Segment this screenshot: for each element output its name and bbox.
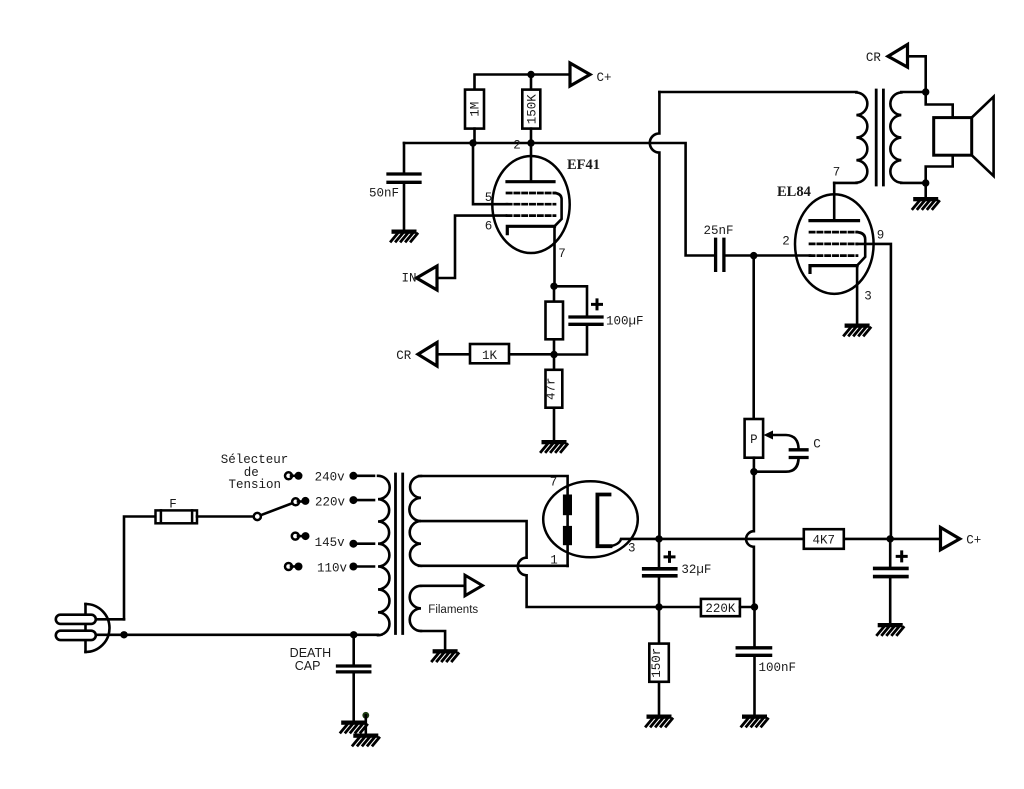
transformer PT primary winding xyxy=(378,476,390,635)
node top rail junction xyxy=(527,71,534,78)
EF41 g3 bracket to cathode, pin 7 drop xyxy=(555,193,562,286)
node B+ 32uF xyxy=(655,535,662,542)
node death cap tap xyxy=(350,631,357,638)
svg-text:220v: 220v xyxy=(315,496,346,510)
svg-text:Filaments: Filaments xyxy=(428,604,478,616)
svg-text:C+: C+ xyxy=(966,534,981,548)
connector Filaments xyxy=(465,575,482,596)
node 220K right xyxy=(751,603,758,610)
svg-text:150r: 150r xyxy=(650,648,664,678)
resistor 4K7 xyxy=(804,529,844,549)
svg-text:Tension: Tension xyxy=(229,478,282,492)
ground EL84 cathode xyxy=(844,324,870,336)
resistor 47r xyxy=(553,355,556,442)
svg-text:CR: CR xyxy=(866,51,882,65)
EF41 cathode xyxy=(507,226,554,233)
selector 145v tap xyxy=(292,533,299,540)
transformer PT filament winding xyxy=(410,586,421,631)
wire plug neutral rail xyxy=(96,633,378,636)
node EL84 grid xyxy=(750,252,757,259)
capacitor (C+ filter) xyxy=(889,539,892,623)
capacitor C (tone) with wiper arrow xyxy=(764,431,774,440)
svg-text:EL84: EL84 xyxy=(777,184,811,200)
capacitor 32uF xyxy=(658,539,661,607)
capacitor 25nF xyxy=(724,254,810,257)
selector 110v tap xyxy=(285,563,292,570)
transformer PT HT secondary xyxy=(409,476,421,566)
svg-text:100nF: 100nF xyxy=(759,661,797,675)
svg-text:4K7: 4K7 xyxy=(813,534,836,548)
node OPT secondary top xyxy=(922,88,929,95)
ground C+ filter xyxy=(877,623,903,635)
svg-text:1M: 1M xyxy=(469,102,483,117)
rectifier cathode bracket xyxy=(597,495,610,547)
connector CR (top) xyxy=(908,56,926,92)
node P bottom xyxy=(750,468,757,475)
svg-text:2: 2 xyxy=(513,139,521,153)
wire pin 9 (screen) down to B+ node xyxy=(857,244,891,539)
wire pin 3 to ground xyxy=(856,266,859,324)
capacitor 50nF xyxy=(403,143,406,231)
resistor (cathode, unlabeled) xyxy=(553,286,556,354)
node 1M/50nF junction xyxy=(469,139,476,146)
connector C+ (top) xyxy=(570,63,590,86)
capacitor 100nF xyxy=(753,607,756,714)
wire pin 5 (from 1M) xyxy=(473,143,507,204)
ground death cap 1 xyxy=(341,721,367,733)
wire pin 6 (from IN) xyxy=(437,216,506,278)
node cathode bottom junction xyxy=(550,351,557,358)
EL84 grids (dashed) xyxy=(810,232,857,256)
capacitor 100uF xyxy=(554,286,587,354)
node plug neutral xyxy=(120,631,127,638)
EL84 anode plate xyxy=(810,219,859,222)
svg-text:5: 5 xyxy=(485,191,493,205)
mains plug xyxy=(84,604,87,652)
connector IN xyxy=(417,266,438,290)
wire filament to connector xyxy=(421,584,465,587)
resistor 150r xyxy=(658,607,661,715)
transformer OPT secondary xyxy=(890,93,901,183)
svg-text:6: 6 xyxy=(485,220,493,234)
svg-text:240v: 240v xyxy=(315,471,346,485)
svg-text:P: P xyxy=(750,433,758,447)
ground 100nF xyxy=(742,715,768,727)
resistor 220K xyxy=(701,599,740,616)
tube EF41 envelope xyxy=(492,156,569,253)
transformer OPT core xyxy=(876,90,883,185)
selector 220v tap xyxy=(292,498,299,505)
svg-text:1K: 1K xyxy=(482,349,498,363)
ground 150r xyxy=(646,715,672,727)
EF41 anode plate xyxy=(530,143,533,182)
node C+ feed xyxy=(887,535,894,542)
wire HT mid tap down (with hop) to bias rail xyxy=(419,521,701,607)
wire HT secondary top to rectifier pin 7 xyxy=(419,476,568,566)
connector CR (left) xyxy=(418,343,437,367)
node EF41 pin2 xyxy=(527,139,534,146)
fuse F xyxy=(124,517,156,620)
svg-text:220K: 220K xyxy=(705,602,736,616)
resistor 150K xyxy=(522,90,540,129)
svg-text:32µF: 32µF xyxy=(681,563,711,577)
ground speaker xyxy=(924,183,927,197)
svg-text:Sélecteur: Sélecteur xyxy=(221,453,289,467)
svg-text:25nF: 25nF xyxy=(703,224,733,238)
wire grid leak vertical xyxy=(752,256,755,419)
svg-text:IN: IN xyxy=(401,272,416,286)
transformer PT core xyxy=(396,474,403,634)
ground filament xyxy=(432,649,458,661)
wire B+ vertical with hop over grid rail xyxy=(650,92,660,539)
selector 240v tap xyxy=(285,472,292,479)
ground 47r xyxy=(541,440,567,452)
resistor 1M xyxy=(465,90,484,129)
svg-text:F: F xyxy=(169,498,177,512)
wire top rail to C+ xyxy=(475,75,571,91)
connector C+ (right) xyxy=(941,527,960,549)
svg-text:100µF: 100µF xyxy=(606,315,644,329)
tube EL84 envelope xyxy=(795,194,874,294)
wire filament bottom to ground xyxy=(421,631,445,649)
svg-text:47r: 47r xyxy=(545,377,559,400)
EL84 g3 bracket to cathode xyxy=(857,232,866,266)
svg-text:7: 7 xyxy=(558,247,566,261)
svg-text:C+: C+ xyxy=(596,71,611,85)
svg-text:110v: 110v xyxy=(317,561,348,575)
svg-text:DEATH: DEATH xyxy=(290,646,331,660)
ground death cap 2 xyxy=(364,715,367,733)
EL84 cathode xyxy=(810,266,857,273)
potentiometer P xyxy=(745,419,764,458)
wire rectifier pin 1 to HT bottom xyxy=(419,564,568,567)
wire grid vertical with hop over B+ line xyxy=(746,472,754,607)
svg-text:3: 3 xyxy=(864,290,872,304)
wire EL84 pin 7 to OPT xyxy=(833,183,836,221)
wire 1M bottom xyxy=(473,129,476,143)
EF41 grids (dashed) xyxy=(507,193,555,216)
node pin7 / 100uF top xyxy=(550,283,557,290)
switch lever xyxy=(261,503,293,515)
wire cathode to B+ node xyxy=(611,539,804,546)
transformer OPT primary xyxy=(856,93,867,183)
wire 150K bottom xyxy=(530,129,533,143)
svg-text:CR: CR xyxy=(396,349,412,363)
resistor 1K xyxy=(437,353,554,356)
svg-text:9: 9 xyxy=(877,229,885,243)
rectifier anodes (filled bars) xyxy=(563,495,572,516)
svg-text:EF41: EF41 xyxy=(567,157,600,173)
svg-text:C: C xyxy=(813,438,821,452)
svg-text:50nF: 50nF xyxy=(369,187,399,201)
tube rectifier envelope xyxy=(543,481,638,557)
node OPT secondary bottom xyxy=(922,179,929,186)
svg-text:7: 7 xyxy=(550,476,558,490)
wire B+ top rail xyxy=(659,91,856,94)
svg-text:7: 7 xyxy=(833,166,841,180)
speaker xyxy=(926,92,953,183)
switch pivot xyxy=(254,513,261,520)
node 32uF bottom xyxy=(655,603,662,610)
svg-text:CAP: CAP xyxy=(295,659,321,673)
node earth (green) xyxy=(362,712,369,719)
wire 150K top stem xyxy=(530,75,533,91)
wire grid rail y=143 xyxy=(404,143,716,256)
svg-text:3: 3 xyxy=(628,542,636,556)
ground 50nF xyxy=(391,230,417,242)
svg-text:2: 2 xyxy=(782,234,790,248)
wire plug live to fuse xyxy=(96,618,124,621)
svg-text:145v: 145v xyxy=(315,536,346,550)
svg-text:150K: 150K xyxy=(525,94,539,125)
